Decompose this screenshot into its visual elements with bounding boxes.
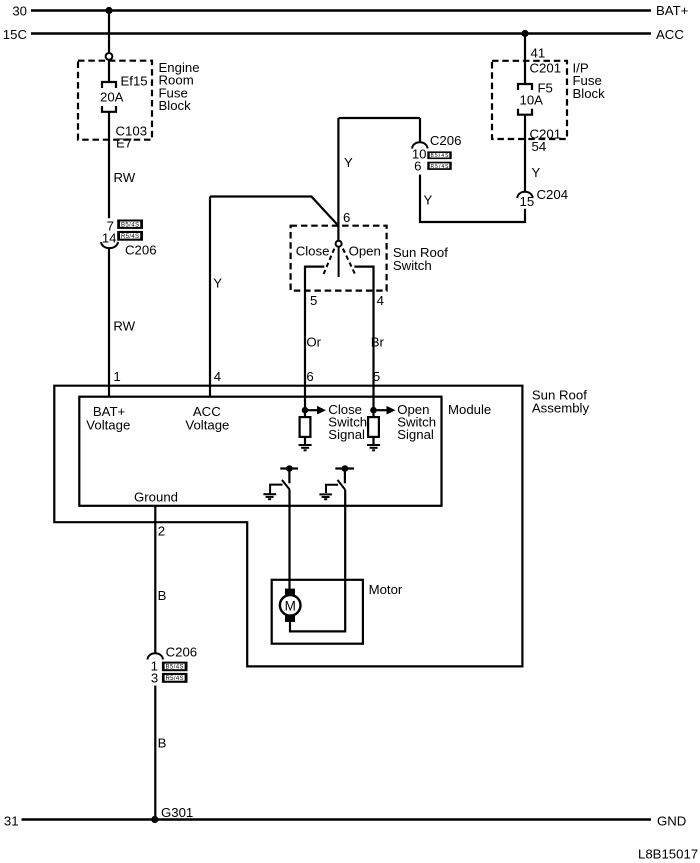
svg-text:GND: GND: [657, 814, 686, 829]
svg-text:14: 14: [102, 231, 117, 246]
svg-text:41: 41: [531, 46, 546, 61]
svg-text:Br: Br: [371, 335, 385, 350]
svg-text:6: 6: [306, 369, 313, 384]
svg-text:5: 5: [373, 369, 380, 384]
svg-text:Ground: Ground: [134, 490, 178, 505]
svg-text:C206: C206: [430, 133, 462, 148]
svg-text:Signal: Signal: [397, 427, 434, 442]
svg-text:Voltage: Voltage: [86, 418, 130, 433]
svg-text:E7: E7: [116, 136, 132, 151]
svg-text:Y: Y: [213, 276, 222, 291]
svg-text:31: 31: [4, 814, 19, 829]
svg-text:Or: Or: [306, 335, 321, 350]
svg-text:Close: Close: [296, 244, 330, 259]
svg-text:Y: Y: [532, 165, 541, 180]
svg-text:3: 3: [151, 671, 158, 686]
svg-text:RW: RW: [113, 319, 135, 334]
svg-text:Module: Module: [448, 402, 491, 417]
svg-text:6: 6: [343, 210, 350, 225]
svg-text:C201: C201: [530, 61, 562, 76]
svg-text:Signal: Signal: [328, 427, 365, 442]
svg-text:15C: 15C: [3, 27, 28, 42]
svg-text:Open: Open: [349, 244, 381, 259]
svg-text:ACC: ACC: [656, 27, 684, 42]
svg-text:B5/4S: B5/4S: [166, 665, 184, 671]
svg-text:RW: RW: [114, 170, 136, 185]
svg-text:10A: 10A: [520, 93, 544, 108]
svg-text:C204: C204: [537, 187, 569, 202]
svg-text:20A: 20A: [100, 90, 124, 105]
svg-text:Motor: Motor: [369, 582, 403, 597]
svg-text:Voltage: Voltage: [185, 418, 229, 433]
svg-text:6: 6: [414, 159, 421, 174]
svg-text:BAT+: BAT+: [656, 3, 689, 18]
svg-text:Assembly: Assembly: [532, 401, 590, 416]
svg-text:15: 15: [520, 194, 535, 209]
svg-text:Ef15: Ef15: [121, 74, 148, 89]
svg-text:Y: Y: [424, 193, 433, 208]
svg-text:Block: Block: [573, 86, 606, 101]
svg-text:R5/4S: R5/4S: [431, 164, 450, 170]
svg-text:B: B: [158, 736, 167, 751]
svg-text:4: 4: [214, 369, 221, 384]
svg-text:L8B15017: L8B15017: [638, 847, 698, 862]
svg-text:5: 5: [310, 293, 317, 308]
svg-text:4: 4: [377, 293, 384, 308]
svg-text:Block: Block: [159, 98, 192, 113]
svg-text:Switch: Switch: [393, 258, 432, 273]
svg-text:G301: G301: [161, 805, 193, 820]
svg-text:C206: C206: [125, 243, 157, 258]
svg-text:54: 54: [532, 139, 547, 154]
svg-text:1: 1: [113, 369, 120, 384]
svg-text:2: 2: [158, 524, 165, 539]
svg-text:B: B: [158, 588, 167, 603]
svg-text:30: 30: [12, 4, 27, 19]
svg-text:B5/4S: B5/4S: [121, 223, 139, 229]
svg-text:M: M: [285, 598, 296, 613]
svg-text:R5/4S: R5/4S: [166, 676, 184, 682]
svg-text:C206: C206: [166, 645, 198, 660]
svg-text:Y: Y: [344, 155, 353, 170]
svg-text:R5/4S: R5/4S: [121, 234, 139, 240]
svg-text:B5/4S: B5/4S: [431, 153, 450, 159]
